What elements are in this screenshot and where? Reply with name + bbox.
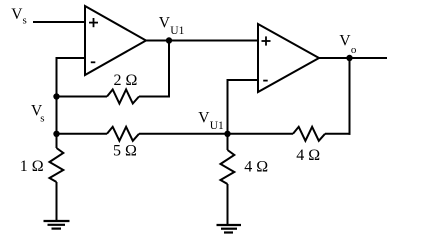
resistor 4 ohm shunt [221,150,235,184]
label Vo [339,33,357,56]
svg-text:s: s [40,113,44,125]
wire feedback U2 vertical [349,58,351,135]
resistor 1 ohm [50,148,64,182]
svg-text:5 Ω: 5 Ω [113,143,137,160]
svg-text:V: V [11,6,23,23]
node VU1 lower [224,131,230,137]
wire Vs source to U1 noninverting input [33,21,86,23]
wire U1 inverting input [56,57,87,59]
svg-text:s: s [23,14,27,26]
wire 5 ohm row left [56,133,108,135]
ground left [44,221,70,229]
svg-text:U1: U1 [170,25,184,37]
label Vs source [11,6,26,26]
svg-text:V: V [198,110,210,127]
node Vo [346,55,352,61]
label Vs node [31,103,45,125]
svg-text:4 Ω: 4 Ω [244,159,268,176]
op-amp U1 [85,6,146,75]
svg-text:1 Ω: 1 Ω [20,158,44,175]
wire 1 ohm to ground [56,182,58,221]
svg-text:4 Ω: 4 Ω [296,147,320,164]
ground right [217,225,242,233]
resistor 5 ohm [107,127,139,141]
resistor 2 ohm [107,90,139,104]
wire 5 ohm row right to node VU1 [139,133,229,135]
wire U2 inverting input [227,79,260,81]
node Vs junction upper [53,93,59,99]
wire right rail (VU1 node to 4 ohm) [227,79,229,150]
svg-text:o: o [351,44,357,56]
svg-text:V: V [339,33,351,50]
label VU1 node [198,110,224,132]
svg-text:2 Ω: 2 Ω [114,72,138,89]
svg-text:U1: U1 [210,120,224,132]
op-amp U2 [258,24,319,92]
wire feedback U2 horizontal left [228,133,294,135]
node VU1 (U1 output junction) [166,37,172,43]
wire U2 output [318,57,387,59]
wire U1 output to U2 noninverting input [145,40,259,42]
wire feedback U1 horizontal left [56,96,108,98]
wire 4 ohm shunt to ground [227,184,229,225]
resistor 4 ohm feedback [293,127,325,141]
svg-text:V: V [159,15,171,32]
label VU1 top [159,15,185,38]
wire feedback U1 vertical [168,41,170,97]
wire feedback U2 horizontal right [325,133,351,135]
wire feedback U1 horizontal right [139,96,170,98]
wire left rail (Vs node) [56,57,58,148]
node Vs junction lower [53,131,59,137]
